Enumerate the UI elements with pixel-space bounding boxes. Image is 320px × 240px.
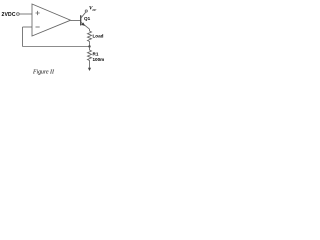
svg-text:Q1: Q1 <box>84 16 91 21</box>
resistor Load <box>88 31 92 47</box>
wire inverting stub <box>23 26 33 28</box>
ground arrow <box>88 63 91 72</box>
transistor Q1 emitter with arrow <box>81 22 90 29</box>
node junction <box>88 45 90 47</box>
wire feedback horizontal <box>23 46 90 48</box>
wire op-amp output to base <box>71 20 81 22</box>
pin - <box>36 26 40 28</box>
wire input to op-amp + <box>19 13 32 15</box>
terminal input <box>17 13 20 16</box>
pin + <box>36 11 40 15</box>
transistor Q1 collector <box>81 12 86 18</box>
svg-text:2VDC: 2VDC <box>2 12 16 18</box>
wire emitter to load <box>89 29 91 31</box>
terminal Vcc <box>85 10 87 12</box>
op-amp U1 <box>32 4 71 36</box>
wire feedback vertical <box>22 27 24 47</box>
transistor Q1 base bar <box>80 15 82 25</box>
svg-text:Figure II: Figure II <box>32 70 55 76</box>
svg-text:100m: 100m <box>93 57 105 62</box>
svg-text:Load: Load <box>93 33 104 38</box>
svg-text:R1: R1 <box>93 52 99 57</box>
svg-text:Vcc: Vcc <box>89 5 96 12</box>
resistor R1 <box>88 47 92 63</box>
